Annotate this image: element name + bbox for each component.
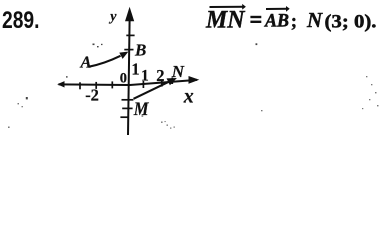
- svg-text:(3; 0).: (3; 0).: [325, 13, 377, 33]
- svg-text:N: N: [171, 62, 185, 81]
- svg-text:289.: 289.: [2, 7, 40, 34]
- svg-text:-2: -2: [85, 86, 99, 105]
- svg-text:;: ;: [291, 11, 297, 32]
- svg-text:y: y: [108, 9, 117, 24]
- svg-text:0: 0: [120, 71, 127, 87]
- svg-text:x: x: [183, 86, 194, 108]
- svg-text:2: 2: [156, 66, 164, 85]
- svg-text:N: N: [306, 8, 323, 32]
- svg-text:AB: AB: [264, 12, 289, 32]
- svg-text:M: M: [133, 99, 150, 120]
- svg-text:1: 1: [141, 68, 149, 85]
- svg-text:B: B: [134, 40, 146, 59]
- svg-text:A: A: [80, 52, 92, 71]
- svg-text:1: 1: [131, 59, 139, 78]
- svg-text:MN: MN: [205, 7, 245, 34]
